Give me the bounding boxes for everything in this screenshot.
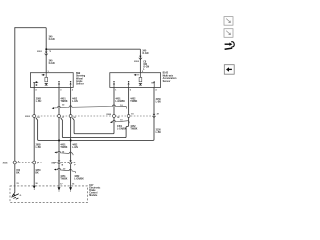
wire labels below row2 right pair [60, 175, 84, 181]
connector row2 dashed boundary left pair [13, 162, 42, 164]
twisted pair note arrow sweep 1 [54, 105, 127, 109]
wire B1 pin3 down [58, 87, 60, 160]
connector inline symbol on 3150 wire [152, 114, 156, 118]
wire w70 to EBCM [70, 165, 72, 188]
svg-text:L-GN/BK: L-GN/BK [117, 129, 127, 131]
node junction H_bot x70.6 [70, 140, 72, 142]
connector ring row1 w128 [127, 115, 130, 118]
wire labels below B1 row [36, 97, 78, 103]
B2 pin symbol bottom middle [128, 81, 130, 87]
connector ring row2 w14 [13, 161, 16, 164]
svg-text:X105: X105 [3, 163, 9, 165]
B1 internal regulator: arrow, resistor, internal ground [42, 74, 49, 86]
wire labels below row1 connector B1 side [36, 143, 79, 149]
svg-text:L-BU: L-BU [156, 132, 162, 134]
connector row1 dashed boundary [32, 115, 153, 117]
node bus tap junction [45, 48, 47, 50]
svg-text:X202: X202 [134, 61, 140, 63]
wire labels below B2 row [115, 97, 161, 103]
svg-text:Control: Control [89, 192, 98, 195]
wire B2 pin1 down then left (W_a) [72, 87, 114, 133]
svg-text:Module: Module [89, 195, 98, 197]
wire B1 pin2 down [70, 87, 72, 160]
svg-text:O-GN: O-GN [49, 63, 55, 65]
twisted pair note arrow sweep 2 [112, 120, 130, 123]
wire B2 pin4 down to H_bot then left [36, 87, 154, 140]
wire B2 pin5 down then jog left down (W_b) [61, 87, 129, 137]
ground G symbol inside EBCM [11, 192, 18, 199]
svg-text:X201: X201 [37, 51, 43, 53]
EBCM K17 dashed module box [10, 186, 88, 203]
connector row2 dashed boundary right pair [55, 161, 77, 163]
svg-text:BK: BK [16, 172, 20, 174]
svg-text:L-GN/BK: L-GN/BK [74, 179, 84, 181]
svg-text:Multi-axis: Multi-axis [163, 74, 174, 77]
wire labels repeated below row1 connector B2 side [117, 125, 161, 134]
svg-text:Steering: Steering [76, 75, 86, 78]
component box B2 multi-axis acceleration sensor [110, 73, 161, 88]
terminal arrow w59 [58, 187, 61, 190]
svg-text:BK: BK [35, 172, 39, 174]
B2 internal regulator: arrow, resistor, internal ground [134, 74, 143, 86]
svg-text:B99: B99 [76, 73, 81, 75]
svg-text:Electronic: Electronic [89, 186, 101, 189]
svg-text:TN/BK: TN/BK [61, 101, 68, 103]
nav icon open2 [224, 29, 233, 38]
B2 pin2 internal stub [139, 73, 141, 78]
svg-text:B142: B142 [163, 72, 169, 75]
connector ring row1 w114 [113, 115, 116, 118]
label B1 name right side [76, 73, 86, 86]
B2 pin symbol bottom right [151, 81, 155, 87]
svg-text:O-GN: O-GN [49, 39, 55, 41]
wire w14 into EBCM [14, 164, 16, 193]
connector ring row1 w34 [33, 115, 36, 118]
terminal arrow w70 [69, 187, 72, 190]
connector X202 inline symbol on right drop [138, 56, 142, 60]
svg-text:Sensor: Sensor [163, 81, 171, 83]
svg-text:Wheel: Wheel [76, 78, 83, 80]
svg-text:Sensor: Sensor [76, 84, 84, 86]
label B2 name right side [163, 72, 177, 83]
svg-text:X203: X203 [25, 116, 31, 118]
connector inline symbol row2 w70 [69, 161, 73, 165]
connector X201 inline symbol on left drop [44, 52, 48, 56]
twisted pair note arrow sweep 4 [55, 168, 75, 173]
svg-text:L-GN: L-GN [72, 147, 78, 149]
svg-text:TN/BK: TN/BK [60, 179, 67, 181]
wire w59 to EBCM [58, 165, 60, 188]
twisted pair note arrow sweep 3 [56, 151, 73, 155]
connector ring row1 w59 [58, 115, 61, 118]
B2 pin symbol bottom left [113, 81, 115, 87]
svg-text:L-BU: L-BU [36, 101, 42, 103]
svg-text:O-GN: O-GN [142, 53, 148, 55]
svg-text:TN/BK: TN/BK [130, 101, 137, 103]
wire B2 top drop pin 2 [139, 49, 141, 72]
connector inline symbol row2 w59 [57, 161, 61, 165]
wire w34 to arrow [33, 164, 35, 186]
B1 pin 3 symbol bottom middle [58, 81, 60, 87]
wire bus horizontal over to B2 [46, 48, 140, 50]
B1 pin1 internal stub [45, 73, 47, 78]
terminal arrow w34 [33, 186, 36, 189]
wire labels below row2 left pair [16, 170, 41, 175]
wire top horizontal feed [15, 27, 46, 29]
wire battery drop into B1 pin 1 [45, 28, 47, 73]
svg-text:L-GN/BK: L-GN/BK [115, 101, 125, 103]
B1 pin 2 symbol bottom right [70, 81, 72, 87]
svg-text:Acceleration: Acceleration [163, 77, 177, 80]
B1 pin 4 symbol bottom left [33, 82, 38, 87]
svg-text:Angle: Angle [76, 80, 83, 83]
component box B1 steering wheel angle sensor [30, 73, 73, 88]
svg-text:L-BU: L-BU [156, 102, 162, 104]
connector ring row1 w70 [69, 115, 72, 118]
connector ring row2 w34 [33, 161, 36, 164]
label K17 module right of box [89, 185, 101, 197]
nav icon open1 top right [224, 17, 233, 26]
svg-text:X200: X200 [106, 114, 112, 116]
nav icon jump arrow [225, 42, 235, 50]
nav icon back [224, 65, 234, 75]
svg-text:TN/BK: TN/BK [60, 147, 67, 149]
svg-text:TN/BK: TN/BK [130, 129, 137, 131]
wire B1 pin4 down [33, 87, 35, 160]
svg-text:L-BU: L-BU [36, 147, 42, 149]
wire left long vertical to G ground [14, 27, 16, 161]
node junction H_bot x59 [58, 140, 60, 142]
svg-text:L-GN: L-GN [72, 101, 78, 103]
